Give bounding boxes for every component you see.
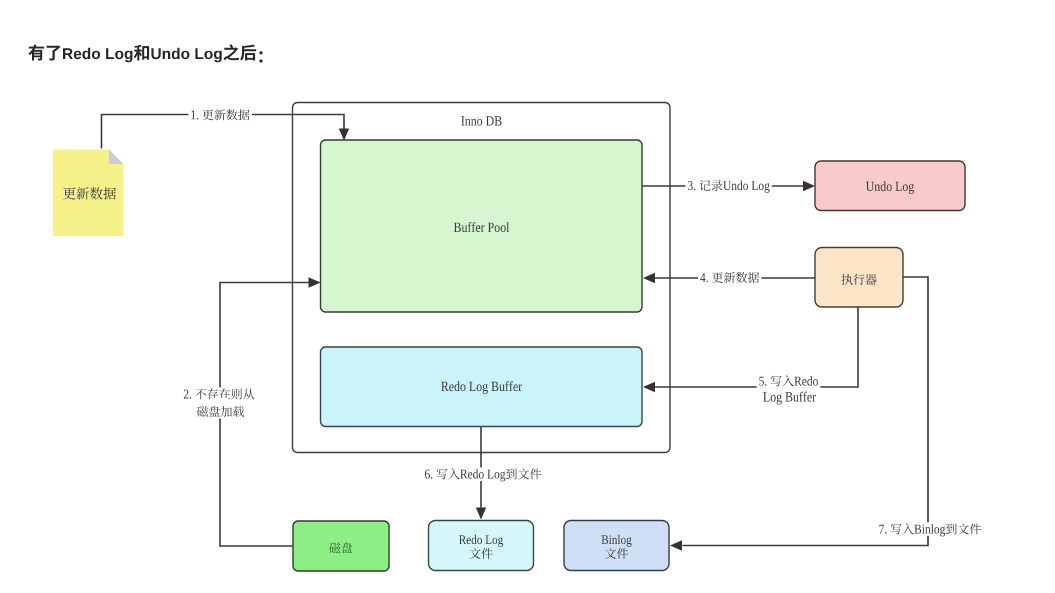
label 磁盘加载 (line 2): [195, 405, 247, 419]
label Binlog (binlog box line 1): [602, 535, 632, 547]
label 1. 更新数据: [188, 108, 252, 122]
label 文件 (file box line 2): [470, 548, 493, 559]
wire 3 (Buffer Pool to Undo Log): [642, 185, 804, 187]
wire 6 (Redo Log Buffer down to Redo Log file): [480, 427, 482, 509]
label Redo Log Buffer: [441, 381, 522, 394]
wire 2 (disk up into Buffer Pool left): [220, 283, 310, 547]
label Undo Log: [866, 181, 914, 194]
arrowhead 2 into Buffer Pool left: [309, 277, 321, 287]
wire 1 (note to Buffer Pool top): [102, 115, 345, 149]
arrowhead 6 into Redo Log file top: [476, 508, 486, 520]
label 2 line gap mask: [213, 398, 228, 408]
box Binlog 文件 (file): [564, 521, 669, 571]
label 4. 更新数据: [698, 271, 762, 285]
wire 4 (executor to Buffer Pool): [655, 277, 816, 279]
label Redo Log (file box line 1): [459, 535, 503, 547]
label 磁盘: [329, 542, 352, 553]
wire 5 (executor down to Redo Log Buffer): [655, 307, 859, 387]
arrowhead 5 into Redo Log Buffer right: [643, 382, 655, 392]
box 执行器 (executor): [815, 248, 903, 308]
box Redo Log Buffer: [321, 347, 643, 427]
wire 7 (executor right, down, into Binlog file): [683, 277, 929, 546]
box 磁盘 (disk): [293, 521, 389, 571]
label Buffer Pool: [454, 222, 509, 232]
arrowhead 7 into Binlog file right: [670, 540, 682, 550]
label Inno DB: [461, 116, 501, 125]
note 更新数据 (update data document): [53, 150, 124, 237]
label 6. 写入Redo Log到文件: [423, 467, 544, 481]
arrowhead 3 into Undo Log: [803, 181, 815, 191]
label Log Buffer (line 2): [763, 392, 816, 405]
label 7. 写入Binlog到文件: [877, 522, 984, 536]
arrowhead 1 into Buffer Pool top: [339, 129, 349, 141]
label 2. 不存在则从 (line 1): [181, 387, 256, 401]
box Buffer Pool: [321, 140, 643, 312]
container Inno DB: [293, 103, 671, 453]
label 5. 写入Redo (line 1): [757, 374, 821, 388]
label 3. 记录Undo Log: [686, 179, 772, 193]
label 执行器: [842, 274, 877, 285]
box Undo Log: [815, 161, 965, 211]
arrowhead 4 into Buffer Pool right: [643, 273, 655, 283]
box Redo Log 文件 (file): [429, 521, 534, 571]
label 更新数据 on note: [63, 187, 116, 200]
label 文件 (binlog box line 2): [605, 548, 628, 559]
title 有了Redo Log和Undo Log之后：: [28, 44, 262, 62]
